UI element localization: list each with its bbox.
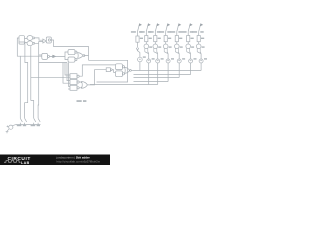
gate U10b box	[116, 71, 123, 77]
power flag F7	[199, 26, 201, 32]
bus line 1	[134, 70, 202, 72]
net arrow label	[50, 55, 56, 58]
logo squiggle	[4, 161, 21, 163]
wire U8 lower input stub	[68, 88, 70, 90]
indicator bulb D3	[156, 59, 160, 63]
wire legs to indicator D5	[175, 52, 179, 59]
wire U4 output east	[50, 52, 69, 60]
wire flag to resistor R7	[198, 32, 200, 36]
wire flag to resistor R4	[165, 32, 167, 36]
gate U7 box	[70, 80, 77, 85]
wire U9 out up east	[87, 70, 106, 85]
label lamps	[149, 46, 152, 47]
indicator bulb D5	[177, 59, 181, 63]
indicator bulb D4	[166, 59, 170, 63]
gate U10 combiner with bubble	[125, 67, 130, 73]
wire U7/U8 to combiner U9	[79, 82, 81, 88]
indicator bulb D6	[189, 59, 193, 63]
label flags row	[131, 31, 136, 33]
wire R4 to lamp L4	[165, 42, 167, 44]
resistor R7	[197, 36, 200, 42]
power flag F4	[166, 26, 168, 32]
wire legs to indicator D7	[197, 52, 201, 59]
wire left vertical net A (input A feed)	[20, 55, 42, 57]
gate U5 combiner	[78, 53, 83, 59]
wire switch SW2 riser dogleg	[19, 42, 28, 118]
label gates note FA1	[77, 100, 82, 102]
lamp L6	[186, 44, 191, 49]
wire D2 to bus	[148, 63, 150, 85]
tiny labels	[17, 31, 207, 126]
bus line 4	[134, 81, 169, 83]
wire flag to resistor R6	[187, 32, 189, 36]
gate U2 XOR oval lower	[27, 41, 33, 46]
power flag F3	[155, 26, 157, 32]
wire oval2 bottom drop to F cluster	[31, 46, 66, 118]
wire D3 to bus	[157, 63, 159, 85]
label switch group B	[31, 125, 36, 126]
wire legs to indicator D6	[187, 52, 191, 59]
wire ovals to buffer	[35, 38, 43, 43]
wire switch SW1 riser dogleg	[17, 38, 20, 118]
wire legs to indicator D4	[164, 52, 168, 59]
label indicators	[143, 56, 146, 57]
columns	[136, 24, 203, 85]
lamp L3	[153, 44, 158, 49]
lamp L7	[196, 44, 201, 49]
wire common rail	[16, 124, 41, 126]
switch SW1	[20, 118, 22, 124]
lamp L2	[144, 44, 149, 49]
power flag F2	[146, 26, 148, 32]
wire D5 to bus	[178, 63, 180, 78]
wire D1 to bus	[139, 62, 141, 71]
wire flag to resistor R1	[137, 32, 139, 37]
wire R2 to lamp L2	[145, 42, 147, 44]
gate U9 combiner	[82, 82, 88, 89]
wire oval lower branch down to U4 and feeder	[39, 44, 67, 63]
inverter U11	[106, 68, 110, 72]
gate U8 box	[70, 85, 77, 90]
gate U6 box (carry and1)	[70, 74, 77, 79]
wire legs to indicator D2	[145, 52, 149, 59]
indicator bulb D1	[138, 57, 143, 62]
wire flag to resistor R3	[154, 32, 156, 36]
svg-text:http://circuitlab.com/c6jt57l8: http://circuitlab.com/c6jt57l8tuh2m	[57, 159, 101, 163]
voltage source V1	[9, 125, 13, 129]
power flag F1	[138, 26, 140, 32]
resistor R5	[175, 36, 178, 42]
wire U11 to U10b	[112, 70, 115, 73]
wire R3 to lamp L3	[154, 42, 156, 44]
label switch group A	[17, 125, 22, 126]
label resistors	[140, 38, 143, 39]
gate U5a box upper	[68, 50, 75, 55]
svg-text:LAB: LAB	[21, 161, 30, 165]
resistor R1	[136, 36, 139, 42]
wire R1 jog down to indicator	[136, 42, 140, 57]
banner	[0, 155, 110, 166]
wire flag to resistor R2	[145, 32, 147, 36]
switch SW4	[38, 118, 40, 124]
wire SW4 riser	[37, 63, 40, 119]
buffer triangle U3	[43, 39, 46, 43]
power flag F6	[188, 26, 190, 32]
wire feeder drops into AND stack	[63, 63, 70, 87]
wire D7 to bus	[200, 63, 202, 71]
bus line 2	[134, 74, 191, 76]
power flag F5	[177, 26, 179, 32]
gate U2 XOR oval upper	[27, 36, 33, 41]
wire D4 to bus	[167, 63, 169, 82]
gate U4 XOR (sum LSB)	[42, 53, 48, 59]
switch SW3	[34, 118, 36, 124]
wire R5 to lamp L5	[176, 42, 178, 44]
wire U5 out to east, jog down	[84, 56, 128, 83]
lamp L5	[175, 44, 180, 49]
gate U3 output box	[46, 37, 51, 43]
wire y77.3 into U6	[66, 76, 70, 78]
lamp L4	[163, 44, 168, 49]
indicator bulb D7	[199, 59, 203, 63]
wire bus6 from gates to col2	[90, 84, 158, 86]
wire legs to indicator D3	[154, 52, 158, 59]
switch SW2	[25, 118, 27, 124]
wire R7 to lamp L7	[198, 42, 200, 44]
resistor R6	[187, 36, 190, 42]
wire D6 to bus	[190, 63, 192, 75]
wire gate box to ovals	[25, 39, 28, 43]
bus line 3	[134, 77, 180, 79]
wire from U3 out, down and east	[51, 40, 88, 60]
indicator bulb D2	[147, 59, 151, 63]
wire U6 output up east	[79, 65, 115, 76]
gate U1 input box	[19, 36, 25, 44]
resistor R3	[154, 36, 157, 42]
wire flag to resistor R5	[176, 32, 178, 36]
wire rail to source	[13, 125, 16, 126]
gate U5b box lower	[68, 57, 75, 62]
resistor R4	[164, 36, 167, 42]
wire R6 to lamp L6	[187, 42, 189, 44]
gate U10a box	[116, 64, 123, 70]
ground	[6, 129, 10, 133]
wire U10 out to bus	[131, 70, 133, 72]
resistor R2	[145, 36, 148, 42]
